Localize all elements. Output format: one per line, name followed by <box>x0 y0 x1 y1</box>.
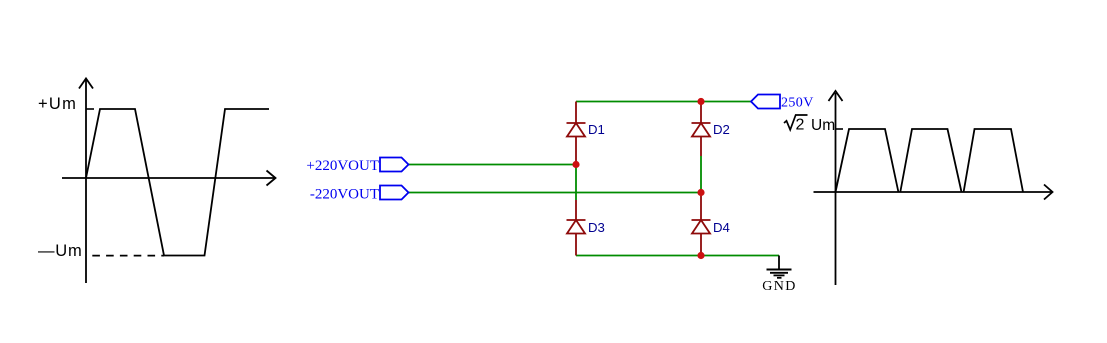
svg-text:D1: D1 <box>588 122 605 137</box>
diode D3 <box>567 200 586 256</box>
junction right branch -220V node <box>697 189 704 196</box>
svg-text:2: 2 <box>796 117 805 134</box>
left graph vertical axis <box>79 79 93 284</box>
port -220VOUT <box>380 186 409 200</box>
svg-text:+220VOUT: +220VOUT <box>306 158 379 174</box>
-Um dashed level line <box>92 255 164 257</box>
svg-text:—Um: —Um <box>38 242 83 260</box>
diode D4 <box>692 193 711 256</box>
port 250V <box>751 95 780 109</box>
junction top wire at right branch <box>697 98 704 105</box>
svg-text:GND: GND <box>762 279 797 294</box>
diode D1 <box>567 102 586 165</box>
right waveform trace <box>836 129 1024 192</box>
svg-text:+Um: +Um <box>38 95 77 113</box>
left branch wire segment <box>575 165 577 201</box>
left waveform trace <box>86 109 269 256</box>
svg-text:Um: Um <box>811 117 835 134</box>
bottom wire GND net <box>576 255 779 257</box>
right graph vertical axis <box>829 91 843 285</box>
wire -220VOUT to right branch node <box>409 192 702 194</box>
top output wire 250V net <box>576 101 751 103</box>
wire +220VOUT to left branch node <box>409 164 577 166</box>
port +220VOUT <box>380 158 409 172</box>
svg-text:-220VOUT: -220VOUT <box>310 187 379 203</box>
junction left branch +220V node <box>572 161 579 168</box>
right graph horizontal axis <box>814 185 1053 200</box>
ground symbol <box>767 256 792 278</box>
svg-text:D2: D2 <box>713 122 730 137</box>
svg-text:D4: D4 <box>713 220 730 235</box>
radical sign <box>784 115 808 130</box>
right branch wire segment <box>700 156 702 193</box>
svg-text:250V: 250V <box>781 96 814 111</box>
+Um tick <box>86 108 94 110</box>
junction bottom wire at right branch <box>697 252 704 259</box>
left graph horizontal axis <box>62 171 276 186</box>
diode D2 <box>692 102 711 157</box>
sqrt2 Um tick <box>836 128 844 130</box>
svg-text:D3: D3 <box>588 220 605 235</box>
